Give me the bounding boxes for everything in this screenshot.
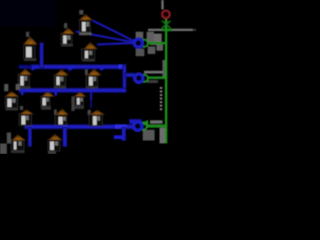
gray blob Z4 (hub1 zigzag): [148, 46, 156, 54]
hub 2 green ring: [141, 75, 148, 82]
drop wire house G to wire 1: [101, 67, 105, 70]
star wire hub1 to house B: [76, 32, 135, 43]
dashed gray column (trunk middle section): [160, 87, 162, 110]
green branch over top gray wire: [162, 29, 173, 32]
house E (network node): [18, 69, 32, 89]
gray bar left of house J: [71, 97, 74, 112]
gray blob Z3 (hub1 zigzag): [156, 42, 163, 51]
green trunk (vertical backbone): [165, 19, 167, 143]
house J (network node): [73, 92, 86, 109]
drop wire house E to wire 1: [32, 67, 36, 70]
house L (network node): [54, 109, 69, 125]
drop wire from wire 4 to house O: [63, 127, 68, 147]
drop wire house F to wire 1: [69, 67, 74, 70]
hub 1 green ring: [141, 40, 148, 47]
house A (network node): [79, 10, 93, 35]
hub 2 blue ring: [135, 74, 143, 82]
house N (network node): [11, 135, 26, 154]
gray block below hub3: [143, 130, 155, 141]
gray bar below hub2 branch: [147, 80, 158, 83]
house D (network node): [81, 42, 97, 61]
house M (network node): [88, 110, 105, 126]
bus wire 1 (row 2 top): [31, 64, 127, 69]
drop wire from house C to wire 1: [39, 42, 43, 69]
gray fragment above house H left: [4, 84, 8, 91]
house K (network node): [19, 106, 34, 126]
gray blob Z5 (hub1 zigzag): [136, 49, 145, 57]
bus wire 1 (dim left end): [18, 64, 35, 69]
gray vertical segment between branch 1 and branch 2: [162, 60, 165, 77]
bus wire 4 (bottom row): [24, 124, 133, 129]
house F (network node): [54, 70, 69, 89]
gray block under top branch: [150, 34, 162, 45]
gray bar above hub2 branch: [144, 71, 163, 74]
house O (network node): [48, 134, 62, 154]
hub 1 blue ring: [134, 39, 142, 47]
house I (network node): [41, 91, 55, 109]
blue segment left of bottom branch arrow: [129, 119, 142, 124]
house B (network node): [61, 23, 75, 47]
antenna cross: [162, 21, 171, 29]
LED red ring: [162, 11, 170, 19]
bus wire 3 (row 2 bottom): [19, 88, 127, 93]
gray fragment above house H right: [16, 84, 20, 90]
stub wire to hub2: [125, 73, 135, 78]
gray branch wire (top, left part): [148, 29, 162, 31]
wire 4 right bright end: [115, 125, 127, 129]
house H (network node): [5, 91, 19, 110]
green arrow at bottom branch: [141, 120, 149, 127]
star wire hub1 to house A: [93, 21, 136, 42]
hub 3 green ring: [140, 122, 147, 129]
background panel top-left: [0, 0, 56, 27]
wire 4 junction blob 2: [63, 124, 68, 128]
gray branch wire (top, right part): [172, 29, 192, 31]
gray bar left of house N: [7, 133, 11, 144]
vertical bus link (wire1 to wire3): [122, 65, 126, 93]
drop wire at wire 4 right end: [121, 127, 126, 141]
drop wire from wire 3 to house M chimney: [90, 92, 92, 101]
gray branch wire at bottom branch: [150, 120, 163, 123]
gray blob Z1 (hub1 zigzag): [136, 32, 144, 39]
gray feed wire at top: [161, 0, 163, 9]
drop nub below wire 3 at house H: [21, 92, 23, 95]
bus wire 1 right arrow blob: [119, 65, 127, 69]
hub 3 blue ring: [133, 122, 142, 131]
green branch 2 (to hub1): [148, 42, 166, 45]
house C (network node): [24, 32, 38, 61]
wire 4 junction blob 1: [28, 124, 32, 128]
star wire hub1 to house D: [97, 43, 134, 45]
drop wire from wire 4 to house N: [28, 127, 32, 147]
house G (network node): [85, 69, 101, 89]
green branch 4 (hub3 horizontal): [147, 124, 167, 127]
gray trunk tail at bottom: [160, 128, 166, 144]
arrow blob left of right drop: [114, 135, 123, 139]
drop nub below wire 3 at house I: [55, 92, 58, 96]
gray block bottom-left corner: [0, 144, 7, 155]
green branch 3 (to hub2): [148, 76, 166, 79]
gray blob Z2 (hub1 zigzag): [147, 32, 154, 42]
